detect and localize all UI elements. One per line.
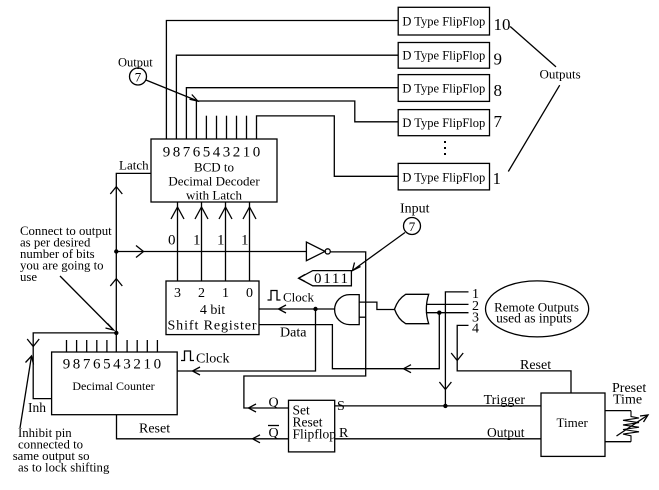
svg-text:Reset: Reset [139, 422, 170, 437]
wire decoder to shift register bit3 with up arrow [171, 202, 184, 281]
wire data from remote3 to shift register [259, 313, 439, 369]
svg-text:Decimal Decoder: Decimal Decoder [168, 174, 260, 189]
svg-text:0: 0 [168, 233, 176, 249]
label Qbar [269, 426, 279, 441]
junction dot bus to inverter wire [114, 249, 118, 253]
svg-text:1: 1 [193, 233, 201, 249]
svg-text:4 bit: 4 bit [200, 303, 225, 318]
svg-text:9: 9 [494, 50, 503, 69]
wire remote output 3 to OR [426, 312, 469, 314]
D flip-flop U1 box [398, 163, 489, 190]
svg-text:Q: Q [269, 396, 279, 411]
svg-text:Inh: Inh [28, 400, 46, 415]
svg-text:7: 7 [409, 219, 416, 234]
BCD to Decimal Decoder with Latch U2 box [151, 139, 277, 203]
arrowhead up on latch bus (upper) [110, 187, 122, 194]
svg-text:7: 7 [135, 70, 142, 85]
preset resistor stub top [605, 410, 631, 412]
arrowhead down on remote1 wire [439, 382, 451, 390]
wire decoder pin8 to FF9 [176, 55, 398, 139]
preset resistor stub bottom [605, 441, 631, 443]
arrowhead left on counter reset wire [253, 435, 261, 443]
wire AND input2 stub [359, 316, 366, 318]
overbar for Qbar [268, 425, 279, 427]
inverter U3 [306, 242, 330, 261]
set reset flipflop U8 box [289, 400, 337, 452]
svg-text:9876543210: 9876543210 [63, 357, 164, 373]
clock pulse symbol at shift register [268, 291, 281, 301]
wire decoder pin9 to FF10 [166, 21, 398, 140]
svg-text:9876543210: 9876543210 [163, 145, 263, 161]
wire decoder pin6 to FF7 [196, 101, 398, 139]
wire S trigger line [335, 405, 541, 407]
svg-text:1: 1 [241, 233, 249, 249]
wire AND output down to counter clock [177, 309, 315, 371]
0111 value tag [299, 271, 352, 287]
svg-text:Clock: Clock [196, 352, 229, 367]
decoder pin1 stub [246, 116, 248, 139]
leader arrow from input note to 0111 tag [353, 233, 406, 271]
svg-text:as to lock shifting: as to lock shifting [18, 461, 110, 475]
svg-text:D Type FlipFlop: D Type FlipFlop [402, 116, 485, 130]
wire R output line [335, 438, 541, 440]
D flip-flop U8 box [398, 75, 489, 102]
svg-text:D Type FlipFlop: D Type FlipFlop [402, 15, 485, 29]
wire inhibit to bus [33, 333, 116, 399]
leader arrow from note to bus junction [60, 276, 114, 330]
wire inverter output to AND input vertical [244, 252, 366, 408]
counter pin stubs [67, 340, 158, 352]
decoder pin2 stub [236, 116, 238, 139]
arrowhead left on Q feedback wire [249, 404, 257, 412]
wire remote output 2 to OR [426, 303, 468, 305]
note text inhibit pin [13, 426, 110, 475]
junction dot AND output branch [313, 307, 317, 311]
leader arrow from inhibit note to inh wire [20, 356, 34, 428]
svg-text:Trigger: Trigger [484, 393, 526, 408]
arrowhead left on counter clock wire [193, 367, 201, 375]
svg-text:BCD to: BCD to [194, 160, 234, 175]
svg-text:Output: Output [487, 425, 525, 440]
arrowhead right on inverter input wire [136, 246, 144, 258]
leader line from 1 to Outputs [508, 85, 559, 171]
wire AND output to shift register clock [259, 308, 335, 310]
label Preset Time [612, 381, 646, 408]
svg-text:1: 1 [493, 169, 502, 188]
leader arrow from output note to pin6 wire [146, 80, 198, 101]
svg-text:3: 3 [174, 286, 181, 301]
wire decoder to shift register bit2 with up arrow [195, 202, 208, 281]
decoder pin5 stub [205, 116, 207, 139]
svg-text:10: 10 [494, 15, 511, 34]
wire decoder to shift register bit1 with up arrow [219, 202, 232, 281]
wire decoder to shift register bit0 with up arrow [243, 202, 256, 281]
svg-text:Input: Input [400, 202, 430, 217]
svg-text:0111: 0111 [314, 271, 350, 287]
4 bit shift register U4 box [166, 281, 259, 335]
svg-text:0: 0 [246, 286, 253, 301]
junction dot trigger [443, 404, 447, 408]
arrowhead down on remote4 wire [451, 353, 463, 361]
wire AND input1 from OR output [359, 302, 394, 309]
vertical ellipsis dots between flipflops [444, 141, 446, 155]
timer U9 box [541, 393, 605, 456]
D flip-flop U7 box [398, 110, 489, 136]
svg-text:Decimal Counter: Decimal Counter [72, 379, 154, 393]
wire remote output 4 to timer reset [457, 325, 571, 393]
circle 7 input note [404, 218, 421, 235]
junction dot remote3 branch [437, 311, 441, 315]
decoder pin4 stub [216, 116, 218, 139]
clock pulse symbol at counter [181, 351, 194, 361]
svg-text:D Type FlipFlop: D Type FlipFlop [402, 82, 485, 96]
AND gate U5 (mirrored, output left) [335, 295, 360, 325]
wire bus to counter pin4 [115, 333, 117, 352]
svg-text:Shift Register: Shift Register [168, 319, 258, 334]
D flip-flop U9 box [398, 43, 489, 69]
svg-text:Flipflop: Flipflop [293, 427, 337, 442]
arrowhead up on latch bus (lower) [110, 279, 122, 286]
junction dot bus bottom [114, 331, 118, 335]
wire decoder pin0 to FF1 [257, 116, 399, 176]
svg-text:1: 1 [217, 233, 225, 249]
svg-text:Data: Data [280, 326, 307, 341]
preset variable resistor zigzag [623, 411, 639, 442]
wire decoder pin7 to FF8 [186, 88, 398, 139]
wire bus to inverter input [116, 251, 306, 253]
note text connect to output [20, 224, 112, 284]
wire set-reset flipflop Qbar to counter reset [117, 415, 289, 439]
svg-text:Reset: Reset [520, 358, 551, 373]
OR gate U6 (mirrored, output left) [395, 294, 429, 323]
arrowhead down on inhibit wire [27, 339, 39, 347]
wire remote output 1 [445, 292, 468, 406]
svg-text:Outputs: Outputs [540, 67, 581, 82]
svg-text:D Type FlipFlop: D Type FlipFlop [402, 171, 485, 185]
svg-text:1: 1 [222, 286, 229, 301]
svg-text:4: 4 [472, 322, 479, 337]
svg-text:Latch: Latch [119, 158, 149, 173]
circle 7 output note [130, 68, 147, 85]
arrow through variable resistor [617, 415, 649, 436]
leader line from 10 to Outputs [510, 27, 556, 67]
remote outputs ellipse [485, 281, 588, 337]
wire latch from left bus to decoder [116, 173, 151, 333]
svg-text:Clock: Clock [283, 290, 315, 305]
svg-text:8: 8 [494, 81, 503, 100]
svg-text:with Latch: with Latch [186, 188, 242, 203]
svg-text:Output: Output [118, 56, 153, 70]
svg-text:D Type FlipFlop: D Type FlipFlop [402, 49, 485, 63]
svg-text:Time: Time [613, 393, 642, 408]
svg-text:Timer: Timer [557, 415, 589, 430]
svg-text:2: 2 [198, 286, 205, 301]
svg-text:Q: Q [269, 426, 279, 441]
D flip-flop U10 box [398, 7, 489, 35]
arrowhead left on shift register clock wire [279, 305, 287, 313]
decoder pin3 stub [226, 116, 228, 139]
svg-text:used as inputs: used as inputs [496, 311, 572, 326]
arrowhead left on data wire [404, 365, 412, 373]
svg-text:7: 7 [494, 112, 503, 131]
decimal counter U7 box [52, 352, 178, 415]
svg-text:use: use [20, 270, 37, 284]
